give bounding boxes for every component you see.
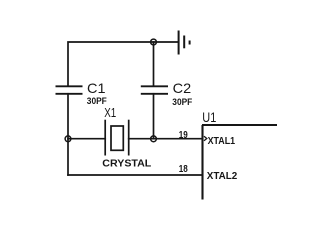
- svg-text:18: 18: [179, 164, 188, 175]
- op IC U1 box edges: [202, 125, 277, 200]
- wire bottom rail to pin 18: [68, 174, 203, 176]
- capacitor C2: [141, 86, 168, 94]
- wire pin 19: [154, 138, 203, 140]
- svg-text:XTAL2: XTAL2: [207, 171, 238, 182]
- svg-text:U1: U1: [202, 109, 216, 125]
- crystal X1: [105, 120, 129, 156]
- node junction top (C2/ground): [151, 39, 157, 45]
- svg-text:C2: C2: [173, 80, 192, 96]
- node junction right (C2/crystal/pin19): [151, 136, 157, 142]
- svg-text:19: 19: [179, 130, 188, 141]
- svg-text:CRYSTAL: CRYSTAL: [102, 159, 151, 170]
- node junction left (C1/crystal): [65, 136, 71, 142]
- svg-text:C1: C1: [87, 80, 106, 96]
- wire C1 bottom lead / left rail: [67, 94, 69, 175]
- wire top rail: [68, 42, 177, 86]
- capacitor C1: [56, 86, 83, 94]
- wire crystal left lead: [68, 138, 105, 140]
- ground: [179, 31, 190, 55]
- wire crystal right lead: [129, 138, 154, 140]
- svg-text:X1: X1: [104, 105, 116, 120]
- wire C2 bottom lead: [153, 94, 155, 139]
- svg-text:30PF: 30PF: [172, 97, 192, 107]
- pin XTAL1 clock chevron: [204, 136, 207, 141]
- wire C2 top lead: [153, 42, 155, 86]
- svg-text:XTAL1: XTAL1: [208, 136, 236, 147]
